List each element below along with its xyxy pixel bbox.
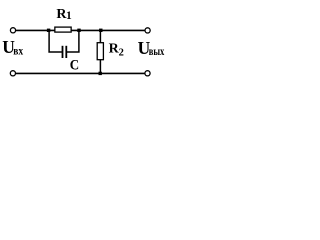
wire R2 vertical: [99, 30, 101, 73]
resistor R2: [97, 43, 103, 60]
capacitor C right plate: [65, 46, 67, 58]
terminal output bottom: [145, 71, 150, 76]
node junction R2 top: [99, 29, 102, 32]
svg-text:1: 1: [66, 10, 72, 22]
terminal input bottom: [10, 71, 15, 76]
svg-text:вых: вых: [149, 44, 165, 58]
terminal output top: [145, 28, 150, 33]
wire capacitor branch right: [67, 30, 79, 52]
svg-text:2: 2: [119, 47, 124, 58]
wire top rail: [16, 29, 145, 31]
svg-text:C: C: [70, 58, 79, 74]
node junction R2 bottom: [99, 72, 102, 75]
capacitor C left plate: [62, 46, 64, 58]
wire bottom rail: [16, 72, 145, 74]
node junction left of R1: [47, 29, 50, 32]
resistor R1: [55, 27, 71, 32]
node junction right of R1: [77, 29, 80, 32]
svg-text:вх: вх: [13, 43, 23, 57]
wire capacitor branch left: [49, 30, 62, 52]
terminal input top: [10, 28, 15, 33]
